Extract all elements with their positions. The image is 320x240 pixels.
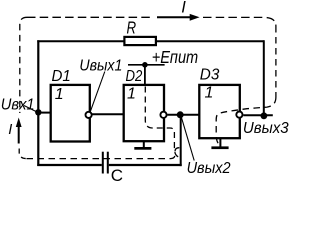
- dashed loop top line right of arrow with top-right corner: [203, 17, 276, 26]
- ground under D3 bar: [211, 146, 228, 149]
- power +Epit dot: [142, 62, 148, 68]
- dashed current path into D3 to ground: [216, 97, 276, 146]
- dashed loop right side down: [275, 26, 277, 97]
- gate D1 output bubble: [86, 112, 92, 118]
- current arrow I left (up): [16, 118, 22, 128]
- gate D3 output bubble: [236, 112, 242, 118]
- svg-text:1: 1: [127, 86, 136, 103]
- resistor R: [124, 37, 155, 45]
- svg-text:C: C: [111, 166, 123, 184]
- wire right feedback vertical: [263, 40, 265, 116]
- svg-text:Uвых3: Uвых3: [243, 120, 289, 137]
- ground under D2 stem: [143, 141, 145, 148]
- svg-text:+Eпum: +Eпum: [152, 47, 199, 67]
- node Uvyh2 junction dot: [177, 111, 184, 118]
- dashed loop bottom line ending at Uvyh2 wire: [27, 148, 180, 159]
- pointer Uvh1 to input node: [24, 106, 37, 113]
- wire D1 output to D2 input: [92, 113, 124, 115]
- svg-text:D2: D2: [126, 68, 143, 85]
- power +Epit tick line: [128, 64, 165, 66]
- dashed current path from +Epit through D2 down to Uvyh2 wire: [145, 87, 180, 158]
- capacitor C plate right: [107, 152, 109, 174]
- svg-text:I: I: [181, 0, 186, 17]
- wire bottom wire right segment: [109, 164, 182, 166]
- ground under D2 bar: [134, 147, 151, 150]
- wire D1 input stub: [38, 112, 51, 114]
- wire D3 output: [243, 114, 272, 116]
- svg-text:1: 1: [205, 85, 214, 102]
- svg-text:I: I: [8, 122, 12, 138]
- node Uvyh3 junction dot: [261, 112, 268, 119]
- svg-text:1: 1: [55, 86, 64, 103]
- capacitor C plate left: [102, 152, 104, 174]
- ground under D3 stem: [219, 138, 221, 147]
- svg-text:Uвх1: Uвх1: [1, 96, 35, 113]
- svg-text:D1: D1: [52, 68, 71, 85]
- dashed loop top line left of arrow: [27, 16, 154, 18]
- svg-text:Uвых2: Uвых2: [187, 160, 231, 177]
- pointer Uvyh1 to D1 bubble: [91, 72, 105, 111]
- gate D2 output bubble: [160, 112, 166, 118]
- wire left vertical wire: [37, 40, 39, 166]
- wire top feedback wire: [37, 40, 263, 42]
- pointer Uvyh2 from junction: [181, 117, 194, 161]
- gate D3 box: [199, 85, 240, 138]
- current arrow I top (right): [157, 16, 192, 18]
- wire D2 output to D3 input: [167, 114, 200, 116]
- svg-text:Uвых1: Uвых1: [79, 58, 122, 75]
- dashed loop bottom-left corner: [19, 149, 26, 159]
- dashed loop top-left corner and left side upper: [20, 17, 27, 113]
- power +Epit feed line into D2: [144, 65, 146, 85]
- node input junction dot: [35, 109, 41, 115]
- wire bottom wire left segment: [37, 164, 102, 166]
- gate D1 box: [51, 85, 90, 142]
- gate D2 box: [124, 85, 164, 141]
- svg-text:D3: D3: [200, 67, 220, 84]
- svg-text:R: R: [127, 17, 137, 37]
- wire Uvyh2 vertical drop wire: [180, 115, 182, 166]
